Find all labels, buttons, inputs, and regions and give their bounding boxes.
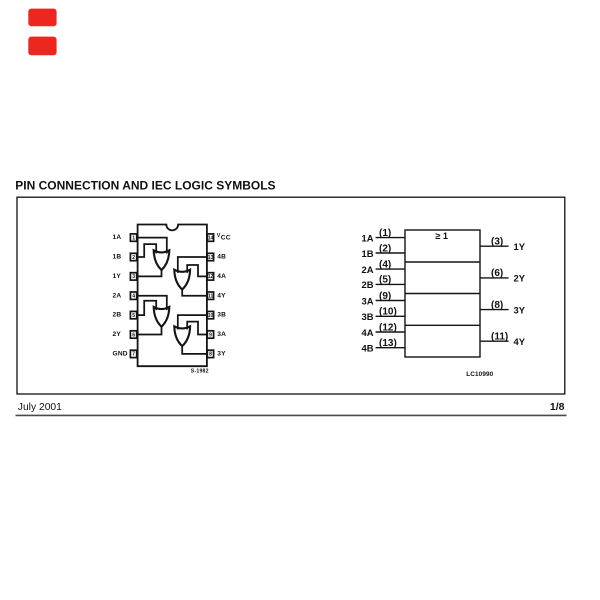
svg-text:July 2001: July 2001 xyxy=(18,402,62,413)
svg-text:1Y: 1Y xyxy=(514,241,526,252)
DIP pin 2 square (left) xyxy=(130,253,136,260)
wire gate4 output to pin11 (4Y) xyxy=(182,289,207,296)
svg-text:3Y: 3Y xyxy=(217,351,226,358)
svg-text:S-1982: S-1982 xyxy=(191,369,209,375)
svg-text:≥ 1: ≥ 1 xyxy=(435,231,448,241)
IEC input line 4B xyxy=(376,347,405,349)
svg-text:(12): (12) xyxy=(379,322,397,333)
OR gate 1 symbol xyxy=(154,250,170,270)
logo block top xyxy=(28,9,56,27)
svg-text:1Y: 1Y xyxy=(113,273,122,280)
DIP pin 14 square (right) xyxy=(207,234,213,242)
svg-text:2Y: 2Y xyxy=(113,331,122,338)
svg-text:5: 5 xyxy=(132,313,135,319)
DIP pin 8 square (right) xyxy=(207,350,213,358)
IEC input line 2B xyxy=(376,283,405,285)
IEC output line 1Y xyxy=(480,245,509,247)
svg-text:2Y: 2Y xyxy=(514,273,526,284)
svg-text:LC10990: LC10990 xyxy=(466,371,493,378)
DIP pin 13 square (right) xyxy=(207,253,213,260)
DIP pin 7 square (left) xyxy=(130,350,136,358)
svg-text:4A: 4A xyxy=(362,327,374,338)
svg-text:3Y: 3Y xyxy=(514,304,526,315)
svg-text:(3): (3) xyxy=(491,237,503,248)
svg-text:14: 14 xyxy=(208,235,214,241)
OR gate 4 symbol xyxy=(174,270,190,290)
wire pin9 (3A) staircase to gate3 input xyxy=(187,322,207,335)
svg-text:1: 1 xyxy=(132,235,135,241)
DIP pin 5 square (left) xyxy=(130,311,136,319)
DIP pin 10 square (right) xyxy=(207,311,213,319)
svg-text:8: 8 xyxy=(209,352,212,358)
IEC output line 2Y xyxy=(480,277,509,279)
IEC input line 3B xyxy=(376,315,405,317)
wire pin4 (2A) to gate2 input xyxy=(137,296,167,310)
IEC output line 4Y xyxy=(480,340,509,342)
IEC section divider 1 xyxy=(405,261,480,263)
DIP pin 1 square (left) xyxy=(130,234,136,242)
svg-text:CC: CC xyxy=(221,234,231,241)
svg-text:13: 13 xyxy=(208,255,214,261)
IEC symbol outline U1 xyxy=(405,230,480,357)
IEC input line 4A xyxy=(376,331,405,333)
svg-text:4A: 4A xyxy=(217,273,226,280)
IEC input line 1B xyxy=(376,252,405,254)
svg-text:6: 6 xyxy=(132,332,135,338)
IEC output line 3Y xyxy=(480,309,509,311)
wire pin10 (3B) to gate3 input xyxy=(178,315,208,329)
svg-text:1B: 1B xyxy=(362,248,374,259)
svg-text:4: 4 xyxy=(132,294,135,300)
wire pin12 (4A) staircase to gate4 input xyxy=(187,265,207,276)
footer rule xyxy=(16,414,567,416)
svg-text:(2): (2) xyxy=(379,243,391,254)
svg-text:10: 10 xyxy=(208,313,214,319)
OR gate 3 symbol xyxy=(174,326,190,346)
figure border box xyxy=(17,197,565,394)
svg-text:GND: GND xyxy=(113,351,128,358)
svg-text:(10): (10) xyxy=(379,307,397,318)
svg-text:4Y: 4Y xyxy=(217,292,226,299)
svg-text:(4): (4) xyxy=(379,259,391,270)
svg-text:3B: 3B xyxy=(217,312,226,319)
svg-text:2A: 2A xyxy=(362,264,374,275)
svg-text:PIN CONNECTION AND IEC LOGIC S: PIN CONNECTION AND IEC LOGIC SYMBOLS xyxy=(15,179,275,193)
svg-text:9: 9 xyxy=(209,332,212,338)
wire gate1 output to pin3 (1Y) xyxy=(137,270,162,277)
logo block bottom xyxy=(28,37,56,56)
svg-text:1A: 1A xyxy=(362,232,374,243)
svg-text:1/8: 1/8 xyxy=(550,401,565,413)
OR gate 2 symbol xyxy=(154,307,170,327)
svg-text:1A: 1A xyxy=(113,234,122,241)
pin label VCC xyxy=(217,233,231,241)
svg-text:4Y: 4Y xyxy=(514,336,526,347)
svg-text:2A: 2A xyxy=(113,292,122,299)
IEC input line 2A xyxy=(376,268,405,270)
svg-text:7: 7 xyxy=(132,352,135,358)
wire pin2 (1B) staircase to gate1 input xyxy=(137,244,156,257)
svg-text:(9): (9) xyxy=(379,291,391,302)
wire pin13 (4B) to gate4 input xyxy=(178,257,208,273)
svg-text:(11): (11) xyxy=(491,332,508,343)
IEC input line 1A xyxy=(376,237,405,239)
wire gate2 output to pin6 (2Y) xyxy=(137,326,162,334)
wire pin1 (1A) to gate1 input xyxy=(137,238,167,254)
svg-text:1B: 1B xyxy=(113,254,122,261)
DIP body outline with notch xyxy=(138,225,207,367)
wire pin5 (2B) staircase to gate2 input xyxy=(137,301,156,315)
svg-text:(1): (1) xyxy=(379,228,391,239)
svg-text:4B: 4B xyxy=(217,254,226,261)
IEC section divider 3 xyxy=(405,324,480,326)
svg-text:2B: 2B xyxy=(362,279,374,290)
svg-text:4B: 4B xyxy=(362,343,374,354)
IEC section divider 2 xyxy=(405,293,480,295)
svg-text:2B: 2B xyxy=(113,312,122,319)
svg-text:(5): (5) xyxy=(379,275,391,286)
svg-text:3A: 3A xyxy=(362,295,374,306)
svg-text:12: 12 xyxy=(208,274,214,280)
DIP pin 11 square (right) xyxy=(207,292,213,300)
wire gate3 output to pin8 (3Y) xyxy=(182,346,207,354)
svg-text:2: 2 xyxy=(132,255,135,261)
svg-text:(6): (6) xyxy=(491,268,503,279)
DIP pin 4 square (left) xyxy=(130,292,136,300)
IEC input line 3A xyxy=(376,300,405,302)
DIP pin 9 square (right) xyxy=(207,331,213,339)
DIP pin 6 square (left) xyxy=(130,331,136,339)
DIP pin 12 square (right) xyxy=(207,273,213,281)
svg-text:3B: 3B xyxy=(362,311,374,322)
svg-text:(8): (8) xyxy=(491,300,503,311)
svg-text:3A: 3A xyxy=(217,331,226,338)
svg-text:(13): (13) xyxy=(379,338,397,349)
svg-text:3: 3 xyxy=(132,274,135,280)
DIP pin 3 square (left) xyxy=(130,273,136,281)
svg-text:11: 11 xyxy=(208,294,214,300)
